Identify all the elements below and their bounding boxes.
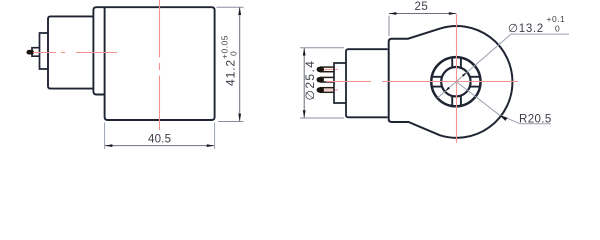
svg-text:+0.1: +0.1 [547, 14, 566, 24]
svg-text:∅25.4: ∅25.4 [303, 60, 317, 101]
leader line d13.2 [438, 34, 511, 98]
leader d13.2 arrowheads [462, 72, 467, 77]
dimension 40.5 extension lines [104, 123, 106, 150]
dimension 40.5 arrows [105, 144, 113, 147]
dimension 40.5 line [105, 145, 214, 147]
leader line R20.5 [456, 82, 551, 124]
bobbin tube (side view) [48, 16, 93, 88]
svg-text:41.2: 41.2 [224, 59, 238, 86]
body front lip (side view) [93, 7, 104, 94]
dimension d25.4 extension lines [300, 47, 344, 49]
terminal collar (side view) [32, 48, 40, 57]
centerline horizontal (front view) [326, 81, 518, 83]
dimension 25 line [389, 13, 456, 15]
dimension d25.4 arrows [303, 48, 306, 56]
centerline vertical (side view) [159, 0, 161, 130]
coil body pear outline (front view) [389, 26, 513, 138]
connector neck (side view) [40, 33, 49, 69]
dimension d25.4 line [303, 48, 305, 118]
hub outer circle [431, 57, 480, 106]
svg-text:40.5: 40.5 [148, 133, 171, 145]
svg-text:25: 25 [415, 1, 429, 13]
leader R20.5 arrowhead [500, 115, 508, 121]
dimension text d25.4 (rotated) [303, 60, 317, 101]
dimension 41.2 extension lines [217, 6, 244, 8]
pin tips (front view) [317, 67, 324, 72]
centerline horizontal (side view) [33, 52, 117, 54]
svg-text:0: 0 [229, 51, 239, 56]
terminal pin (side view) [27, 50, 35, 55]
dimension 41.2 line [239, 7, 241, 121]
hub bore circle (13.2) [441, 67, 470, 96]
dimension 25 arrows [389, 12, 397, 15]
connector pin centerlines (short red) [318, 69, 338, 90]
leader d13.2 underline [511, 33, 569, 35]
connector pins (front view) [320, 67, 334, 92]
svg-text:0: 0 [555, 23, 560, 33]
centerline vertical (front view) [456, 14, 458, 143]
svg-text:R20.5: R20.5 [519, 113, 552, 125]
svg-text:∅13.2: ∅13.2 [508, 23, 544, 35]
coil body main outline (side view) [105, 7, 215, 120]
pin shroud (front view) [334, 63, 346, 103]
connector block (front view) [346, 49, 388, 117]
dimension 25 extension line [388, 16, 390, 37]
dimension text 41.2 +0.05/0 (rotated) [220, 35, 239, 86]
hub slots [432, 58, 480, 106]
dimension 41.2 arrows [238, 7, 241, 15]
